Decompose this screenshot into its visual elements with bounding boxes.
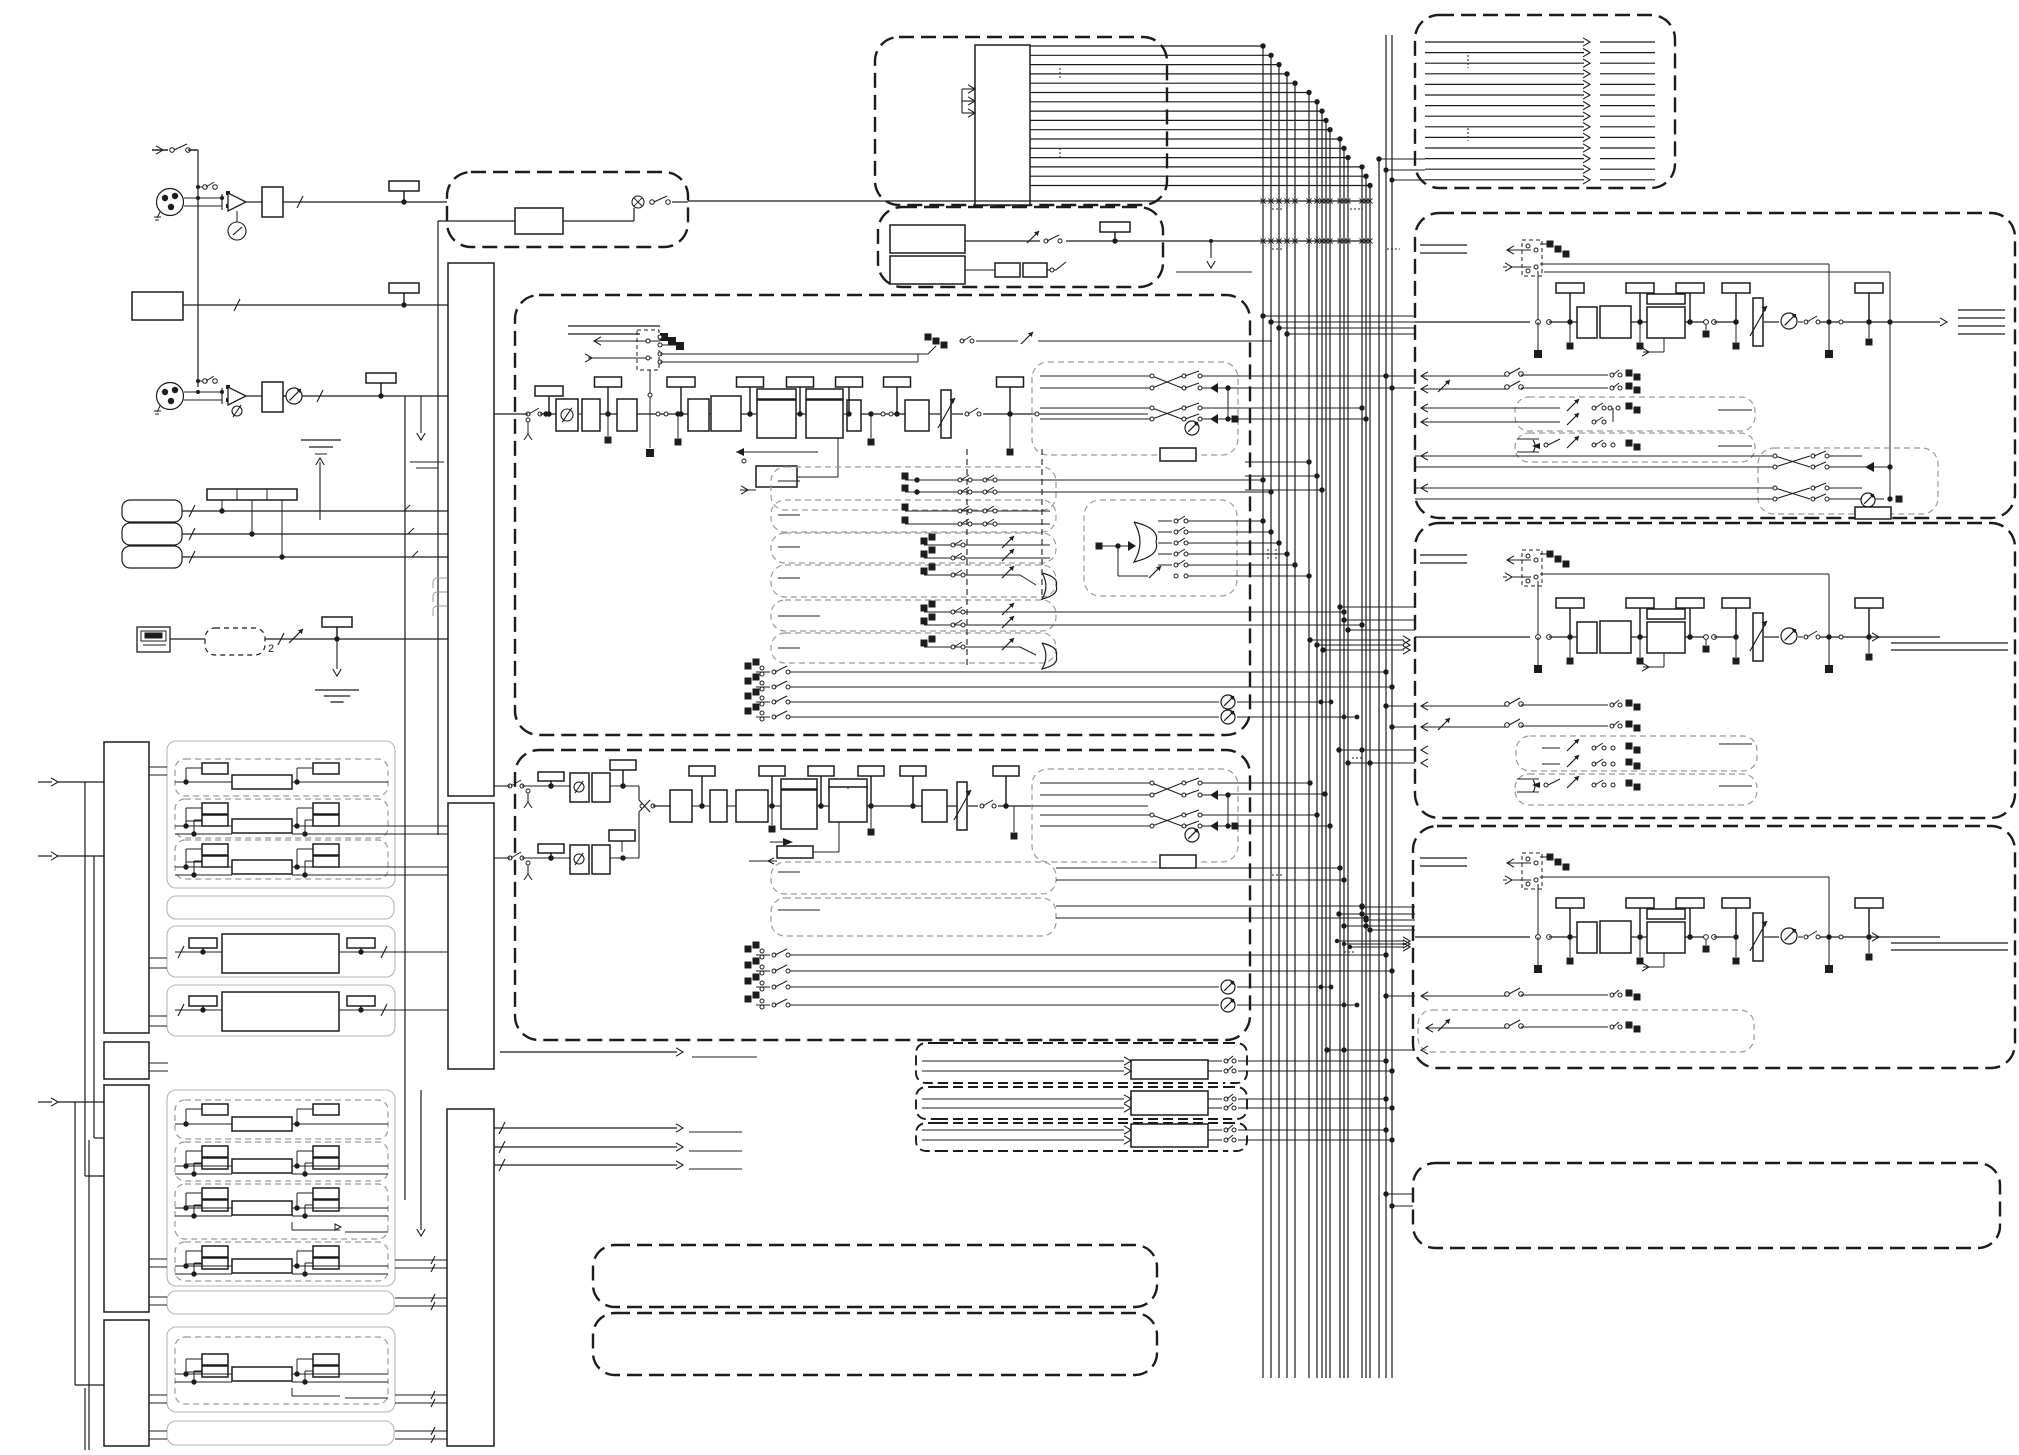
meter tap 1 bbox=[389, 181, 419, 191]
signal ground node bbox=[301, 440, 341, 520]
head amp A1 bbox=[228, 193, 246, 211]
wire: to gate bbox=[637, 412, 688, 416]
stereo aux row 1 bbox=[771, 862, 1347, 894]
FX sub 2d bbox=[175, 1242, 388, 1281]
meter tap eq bbox=[787, 377, 814, 387]
mic 1 pin wiring bbox=[184, 191, 230, 210]
FX return slot 1 bbox=[916, 1043, 1395, 1083]
meter tap ch3 bbox=[667, 377, 695, 387]
USB connector bbox=[137, 627, 170, 652]
USB gain pot bbox=[289, 629, 303, 643]
bus cross marks on talkback line bbox=[1260, 238, 1372, 243]
monitor select button 1 bbox=[122, 500, 182, 522]
talkback level wire bbox=[965, 231, 1371, 243]
pad switch and feed to channel 2 bbox=[152, 144, 198, 387]
stereo direct out row 2 bbox=[745, 958, 1395, 976]
container: FX block group 3 bbox=[167, 1327, 395, 1412]
dashed box: fx master section bbox=[1413, 826, 2015, 1068]
pan/routing matrix E bbox=[1032, 769, 1238, 862]
stereo post fader bbox=[968, 766, 1032, 840]
stubs DSP4 bbox=[149, 1395, 167, 1439]
stereo direct out row 3 bbox=[745, 974, 1334, 995]
wire: insert to bus crossing bbox=[688, 200, 1371, 202]
meter tap USB bbox=[322, 617, 352, 627]
meter tap ch4 bbox=[836, 377, 863, 387]
osc block 2 bbox=[890, 256, 965, 284]
XLR connector J1 (mic input 1) bbox=[157, 189, 184, 216]
meter tap 3 bbox=[366, 373, 396, 383]
master chain bbox=[1420, 244, 1467, 246]
block U1 (input DSP) bbox=[975, 45, 1030, 205]
bus junctions feeding output group bbox=[1376, 156, 1425, 1378]
balance matrix master bbox=[1415, 448, 1938, 519]
dashed box: stereo input processing group bbox=[875, 37, 1167, 205]
phase block bbox=[540, 399, 578, 431]
bus group jumper dots bbox=[1272, 209, 1400, 249]
stereo channel input pair bbox=[494, 760, 655, 880]
input selector block S1 bbox=[448, 263, 494, 796]
fx bundle crossing bbox=[1307, 636, 1410, 654]
container: FX block group 2 bbox=[167, 1090, 395, 1286]
dashed box: output port group (top right) bbox=[1415, 15, 1675, 188]
wire: mic1 to insert box bbox=[246, 196, 447, 208]
level bar block bbox=[207, 489, 297, 500]
direct out row 1 bbox=[745, 659, 1389, 677]
wire: left return C bbox=[38, 1098, 104, 1385]
master return 2 bbox=[1421, 380, 1641, 394]
fx bundle crossing K bbox=[1335, 937, 1410, 951]
wire: monitor line 1 bbox=[182, 505, 448, 517]
meter tap ch6 bbox=[997, 377, 1024, 387]
pan/routing matrix D bbox=[1032, 362, 1238, 455]
USB level block (dashed) bbox=[205, 628, 265, 655]
comp block with meter bbox=[757, 389, 796, 438]
FX send bus junctions bbox=[1260, 518, 1297, 567]
aux extra return bbox=[1515, 774, 1757, 805]
dashed box: aux master section bbox=[1415, 523, 2015, 818]
XLR connector J2 (mic input 2) bbox=[157, 383, 184, 410]
channel insert row bbox=[925, 332, 1273, 354]
bus cross marks on line 1 bbox=[1260, 198, 1372, 203]
DSP block left 4 bbox=[104, 1320, 149, 1446]
talkback drop arrow bbox=[1176, 239, 1252, 272]
input selector block S3 bbox=[447, 1109, 494, 1446]
stereo direct out row 1 bbox=[745, 942, 1389, 960]
DSP block left 3 bbox=[104, 1085, 149, 1312]
aux send row 1 (pre) bbox=[771, 467, 1274, 510]
aux stack verticals bbox=[967, 449, 1042, 668]
left edge verticals bbox=[85, 1140, 89, 1450]
container: GEQ 1 bbox=[167, 926, 395, 977]
FX return slot 3 bbox=[916, 1123, 1395, 1151]
wires to selector S3 bbox=[395, 1256, 447, 1443]
aux send row 5 bbox=[771, 600, 1365, 631]
aux send row 6 with sum bbox=[771, 633, 1057, 669]
stereo direct out row 4 bbox=[745, 992, 1360, 1013]
wire to pan D bbox=[1032, 412, 1148, 416]
wire: monitor line 3 bbox=[182, 551, 448, 563]
output wires with arrowheads (top right) bbox=[1425, 38, 1655, 184]
dashed box: footer note 1 bbox=[593, 1245, 1157, 1307]
wire: line input to selector bbox=[183, 299, 448, 311]
input selector block S2 bbox=[448, 803, 494, 1069]
stereo aux row 2 bbox=[771, 898, 1369, 936]
aux send row 2 bbox=[771, 500, 1056, 532]
mic 2 pin wiring bbox=[184, 385, 230, 404]
DSP block left 1 bbox=[104, 742, 149, 1033]
FX sub 3a bbox=[175, 1337, 388, 1404]
comp sidechain loop bbox=[736, 438, 838, 494]
container: GEQ 2 bbox=[167, 985, 395, 1036]
FX sub 2c bbox=[175, 1184, 388, 1239]
wire: mic2 to selector bbox=[246, 390, 448, 402]
meter tap 2 bbox=[389, 283, 419, 293]
dashed box: expansion slot bbox=[1413, 1163, 2000, 1248]
master return 1 bbox=[1421, 368, 1641, 381]
channel fader bbox=[941, 390, 951, 438]
stereo channel chain blocks bbox=[653, 766, 958, 864]
channel label lines bbox=[568, 326, 660, 334]
ground reference USB bbox=[315, 689, 359, 691]
mono sum return bbox=[1515, 433, 1755, 462]
bar taps bbox=[219, 500, 284, 560]
stubs DSP2 bbox=[149, 1063, 168, 1071]
head amp A2 bbox=[228, 387, 246, 405]
FX sub 1a bbox=[175, 759, 388, 796]
phantom switch 1 bbox=[196, 182, 217, 189]
FX sub 1b bbox=[175, 799, 388, 838]
dashed box: stereo master section bbox=[1415, 213, 2015, 518]
direct out row 4 bbox=[745, 704, 1360, 725]
dashed box: oscillator/talkback bbox=[878, 207, 1163, 287]
bus connector wires (left feeds) bbox=[1228, 373, 1415, 828]
FX sub 1c bbox=[175, 840, 388, 879]
extra bus connector rows bbox=[1272, 746, 1428, 1054]
wire: left return B bbox=[38, 852, 104, 1138]
meter tap ch1 bbox=[535, 386, 563, 396]
wire fan from DSP block to bus staircase junctions bbox=[1030, 43, 1373, 188]
wire comp-eq bbox=[796, 413, 806, 415]
meter tap ch5 bbox=[884, 377, 911, 387]
gate blocks bbox=[675, 396, 742, 446]
meter tap ch2 bbox=[595, 377, 622, 387]
arrow: USB drop bbox=[333, 639, 341, 676]
osc sub chain bbox=[965, 262, 1066, 277]
HPF/att blocks bbox=[578, 399, 637, 444]
wires to selector S2 bbox=[388, 826, 448, 1010]
insert send/return wiring with sum node bbox=[438, 196, 688, 221]
container: spare 3 bbox=[167, 1421, 394, 1445]
wire: long feed down left bbox=[404, 396, 406, 1200]
container: spare 1 bbox=[167, 896, 394, 919]
stereo fader bbox=[957, 782, 967, 830]
fx return 1 bbox=[1421, 988, 1641, 1001]
insert block bbox=[515, 208, 563, 234]
dashed box: stereo input channel strip bbox=[515, 750, 1250, 1040]
wire: left return A bbox=[38, 778, 104, 1176]
FX sub 2a bbox=[175, 1100, 388, 1139]
aux send row 3 bbox=[771, 533, 1056, 563]
bus taps to right sections bbox=[1383, 703, 1415, 998]
container: spare 2 bbox=[167, 1291, 394, 1314]
bus taps master chain bbox=[1260, 313, 1415, 336]
dashed box: mono input channel strip bbox=[515, 295, 1250, 735]
wire: link out bbox=[500, 1048, 757, 1057]
channel source select cluster bbox=[585, 330, 928, 457]
fx chain bbox=[1420, 857, 1467, 859]
wires: selector S3 outputs bbox=[494, 1122, 742, 1171]
input arrows to U1 bbox=[962, 85, 975, 117]
aux chain bbox=[1420, 554, 1467, 556]
DSP block left 2 bbox=[104, 1042, 149, 1079]
dashed box: channel insert bbox=[447, 172, 688, 247]
FX 2c aux out bbox=[292, 1222, 388, 1232]
fx monitor row bbox=[1418, 1010, 1754, 1052]
monitor select button 3 bbox=[122, 546, 182, 568]
arrow: feed into S3 region bbox=[417, 1090, 425, 1236]
wire: USB to selector bbox=[170, 633, 448, 645]
monitor select button 2 bbox=[122, 523, 182, 545]
aux send row 4 with sum bbox=[771, 564, 1057, 600]
direct out row 3 bbox=[745, 689, 1334, 710]
FX send selector fan bbox=[1084, 500, 1312, 596]
phantom switch 2 bbox=[196, 376, 217, 383]
direct out row 2 bbox=[745, 674, 1395, 692]
gain pot 1 bbox=[228, 211, 246, 240]
meter tap TB bbox=[1100, 222, 1130, 232]
dashed box: footer note 2 bbox=[593, 1313, 1157, 1375]
bus taps fx chain bbox=[1359, 904, 1415, 932]
GEQ 1 chain bbox=[175, 934, 390, 973]
container: FX block group 1 bbox=[167, 741, 395, 888]
FX sub 2b bbox=[175, 1142, 388, 1181]
expansion stubs bbox=[1383, 1191, 1413, 1208]
stubs DSP1-containers bbox=[149, 767, 167, 1026]
svg-text:2: 2 bbox=[268, 643, 274, 655]
HPF block bbox=[262, 187, 283, 217]
wire to pan E bbox=[1032, 805, 1148, 807]
aux returns bbox=[1421, 698, 1641, 732]
HPF block 2 bbox=[262, 382, 283, 412]
monitor return pair bbox=[1421, 397, 1755, 431]
line input jack block bbox=[132, 292, 183, 320]
gray connector tabs bbox=[433, 578, 447, 616]
bus taps aux chain bbox=[1337, 604, 1415, 632]
bus vertical lines (mix/aux/fx bus wires) bbox=[1263, 35, 1392, 1378]
channel on switch 2 bbox=[952, 408, 1032, 456]
channel on switch bbox=[494, 408, 542, 440]
phase mark 2 bbox=[232, 406, 242, 416]
EQ block with meter bbox=[806, 389, 843, 438]
FX return slot 2 bbox=[916, 1087, 1395, 1119]
aux monitor pair bbox=[1516, 736, 1757, 771]
arrow: direct out drop bbox=[417, 396, 425, 440]
delay block bbox=[905, 400, 940, 431]
trim pot 2 bbox=[286, 388, 302, 404]
osc block 1 bbox=[890, 225, 965, 253]
att block bbox=[843, 400, 905, 446]
FX 3a aux out bbox=[292, 1388, 388, 1398]
wire: vertical insert feed bbox=[437, 221, 439, 835]
ground reference A bbox=[410, 462, 444, 468]
wire: monitor line 2 bbox=[182, 528, 448, 540]
stubs DSP3 bbox=[149, 1259, 167, 1305]
GEQ 2 chain bbox=[175, 992, 390, 1031]
